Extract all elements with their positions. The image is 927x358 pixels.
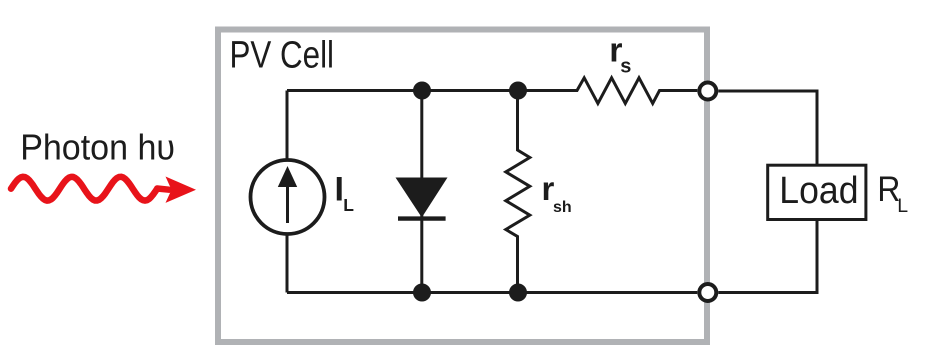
- svg-text:s: s: [620, 56, 631, 78]
- svg-text:L: L: [343, 195, 354, 215]
- svg-text:Load: Load: [779, 170, 858, 212]
- svg-text:sh: sh: [553, 199, 572, 216]
- svg-text:PV Cell: PV Cell: [230, 35, 335, 77]
- svg-text:L: L: [897, 195, 908, 217]
- svg-text:Photon hυ: Photon hυ: [20, 127, 175, 168]
